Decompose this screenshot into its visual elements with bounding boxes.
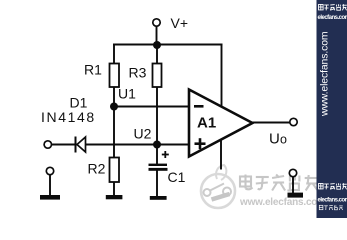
svg-text:U2: U2 [134, 126, 152, 142]
svg-text:o: o [280, 133, 287, 147]
svg-text:U1: U1 [118, 86, 136, 102]
svg-text:R3: R3 [129, 65, 147, 81]
svg-text:U: U [269, 131, 280, 148]
svg-text:www.elecfans.com: www.elecfans.com [239, 197, 326, 208]
svg-text:www.elecfans.com: www.elecfans.com [320, 32, 331, 117]
svg-text:R2: R2 [88, 161, 106, 177]
svg-text:IN4148: IN4148 [41, 109, 96, 125]
svg-text:C1: C1 [168, 169, 186, 185]
svg-text:A1: A1 [197, 114, 216, 131]
svg-text:V+: V+ [171, 15, 189, 31]
svg-text:elecfans.com: elecfans.com [318, 198, 347, 204]
svg-text:elecfans.com: elecfans.com [318, 15, 347, 21]
svg-text:R1: R1 [84, 62, 102, 78]
